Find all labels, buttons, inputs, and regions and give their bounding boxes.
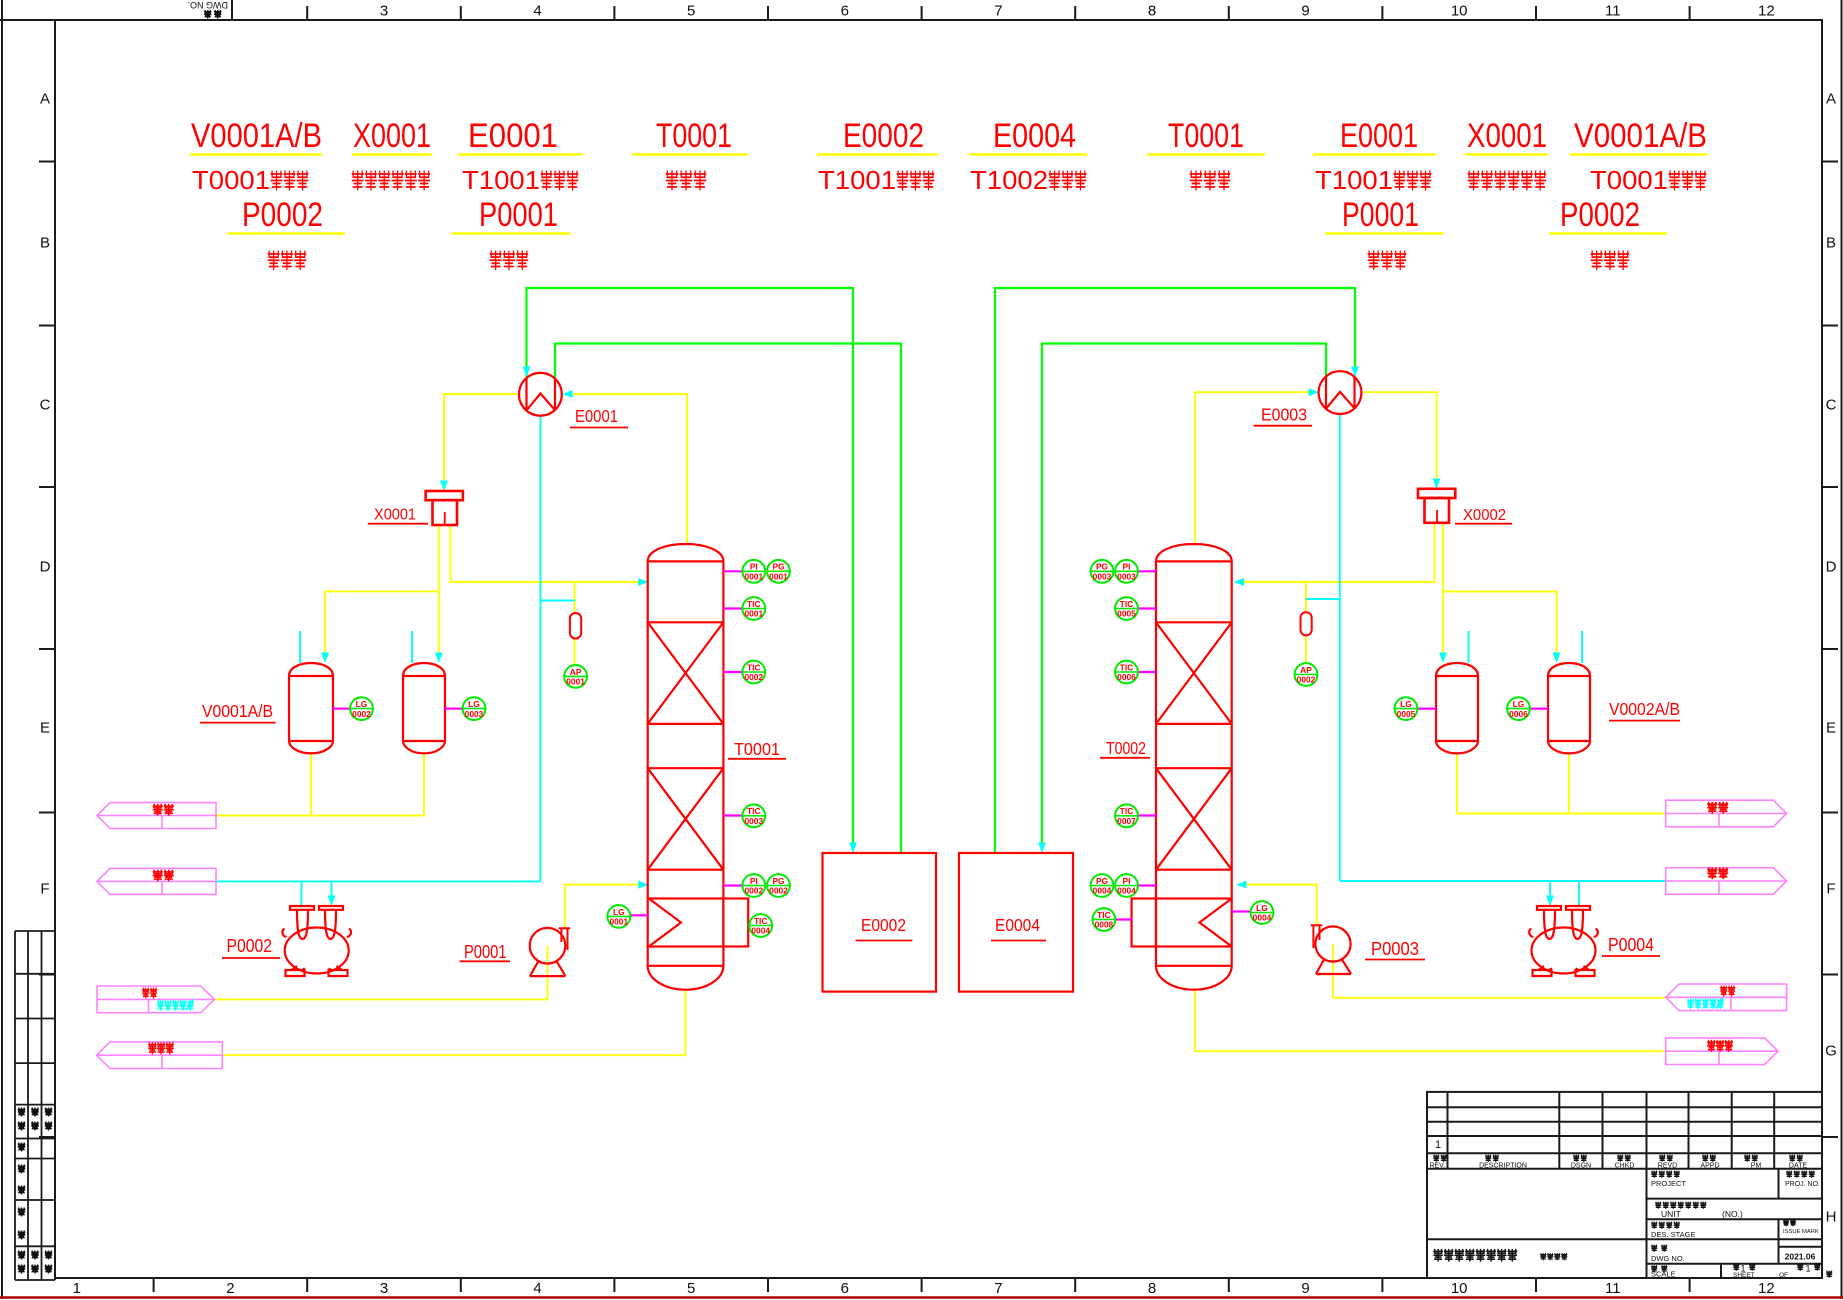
svg-text:TIC: TIC [747,806,761,816]
svg-text:9: 9 [1301,1280,1309,1297]
svg-text:C: C [1826,397,1837,414]
svg-text:7: 7 [994,3,1002,20]
svg-text:PROJECT: PROJECT [1651,1179,1686,1188]
product header from V0002A/B to flag [1457,754,1666,814]
instrument PI0001 [742,560,765,583]
cyan line E0001 bottom to vent header [216,416,540,882]
svg-text:T0001: T0001 [734,739,780,759]
vent drops into P0004 [1550,881,1579,906]
green line E0003 top-left to E0004 [1042,344,1326,850]
svg-text:LG: LG [356,699,368,709]
svg-text:TIC: TIC [747,599,761,609]
svg-text:8: 8 [1148,1280,1156,1297]
equipment index labels top [190,117,1707,269]
instrument LG0001 [607,905,630,928]
svg-text:PROJ. NO.: PROJ. NO. [1785,1181,1820,1188]
flag vent out right [1666,868,1787,895]
svg-text:T0001: T0001 [1168,117,1244,155]
instrument TIC0006 [1115,661,1138,684]
top-left fold mark vertical [231,0,233,20]
svg-text:0001: 0001 [769,572,788,582]
bottom ruler column numbers 1-12 [73,1280,1775,1297]
distillation column T0002 shell [1156,544,1232,990]
svg-text:10: 10 [1451,1280,1468,1297]
svg-text:OF: OF [1779,1272,1788,1279]
svg-text:0003: 0003 [1093,572,1112,582]
top-left upside-down DWG NO. fold label [188,0,229,10]
flag product out right [1666,800,1787,827]
svg-text:T1001: T1001 [818,165,896,195]
svg-text:E0001: E0001 [575,406,618,426]
svg-text:REV.: REV. [1429,1163,1445,1170]
right border row ticks [1822,161,1838,163]
svg-text:6: 6 [841,1280,849,1297]
svg-text:8: 8 [1148,3,1156,20]
svg-text:DES. STAGE: DES. STAGE [1651,1230,1695,1239]
svg-text:T0001: T0001 [192,165,270,195]
svg-text:0002: 0002 [352,709,371,719]
instrument AP0002 [1295,663,1318,686]
svg-text:ISSUE MARK: ISSUE MARK [1783,1229,1819,1235]
pipe drop to sample capsule AP0002 [1305,582,1307,663]
svg-text:0001: 0001 [744,609,763,619]
svg-text:TIC: TIC [747,662,761,672]
chiller box E0004 [959,853,1073,992]
svg-text:2021.06: 2021.06 [1785,1252,1816,1262]
sample capsule above AP0001 [570,613,581,639]
svg-text:TIC: TIC [1120,599,1134,609]
svg-text:0002: 0002 [1297,675,1316,685]
svg-text:0004: 0004 [751,926,770,936]
svg-text:DATE: DATE [1789,1163,1807,1170]
svg-text:12: 12 [1758,1280,1775,1297]
svg-text:0003: 0003 [744,816,763,826]
feed pump P0003 [1315,926,1350,961]
instrument PG0002 [767,874,790,897]
svg-text:LG: LG [468,699,480,709]
svg-text:0001: 0001 [744,572,763,582]
flag vent out left [97,868,216,894]
svg-text:E0001: E0001 [1340,117,1418,155]
instrument PG0003 [1091,560,1114,583]
svg-text:1: 1 [1805,1264,1810,1274]
svg-text:B: B [40,235,50,252]
svg-text:E0004: E0004 [993,117,1076,155]
svg-text:SHEET: SHEET [1733,1272,1755,1279]
vent drops into P0002 [302,881,332,906]
condenser E0001 [519,373,562,416]
svg-text:D: D [40,559,51,576]
cyan line E0003 bottom to vent header [1340,414,1666,881]
svg-text:F: F [40,881,49,898]
svg-text:0004: 0004 [1117,886,1136,896]
svg-text:T1001: T1001 [1315,165,1393,195]
T0002 reboiler chevron [1200,899,1232,947]
svg-text:P0001: P0001 [479,196,558,234]
product header from V0001A/B to flag [216,754,424,816]
svg-text:0001: 0001 [566,677,585,687]
svg-text:0003: 0003 [1117,572,1136,582]
instrument TIC0008 [1093,908,1116,931]
svg-text:LG: LG [613,907,625,917]
vacuum pump P0004 [1532,928,1596,974]
svg-text:UNIT: UNIT [1661,1209,1681,1219]
svg-text:0007: 0007 [1117,816,1136,826]
instrument LG0006 [1507,697,1530,720]
svg-text:P0002: P0002 [242,196,323,234]
svg-text:T0001: T0001 [656,117,732,155]
instrument PI0002 [742,874,765,897]
svg-text:P0002: P0002 [227,936,273,956]
svg-text:0006: 0006 [1509,709,1528,719]
svg-text:P0004: P0004 [1608,935,1654,955]
outer right border line [1841,0,1843,1299]
svg-text:TIC: TIC [1120,662,1134,672]
svg-text:DSGN: DSGN [1571,1163,1591,1170]
instrument PG0001 [767,560,790,583]
svg-text:X0001: X0001 [353,117,431,155]
green line E0002 to E0001 top-right [555,344,901,854]
svg-text:APPD: APPD [1700,1163,1719,1170]
svg-text:C: C [40,397,51,414]
svg-text:B: B [1826,235,1836,252]
svg-text:T1001: T1001 [462,165,540,195]
svg-text:1: 1 [1435,1139,1441,1151]
pipe branch to V0001A [325,591,439,659]
instrument LG0004 [1251,901,1274,924]
svg-text:E0003: E0003 [1261,405,1307,425]
product tank V0002B [1548,663,1590,753]
top ruler ticks [306,6,308,20]
svg-text:T0002: T0002 [1106,738,1146,758]
svg-text:0002: 0002 [744,672,763,682]
svg-text:PG: PG [772,562,784,572]
svg-text:1: 1 [73,1280,81,1297]
feed line from flag to P0001 [215,946,548,999]
svg-text:LG: LG [1400,699,1412,709]
pipe branch to V0002B [1443,592,1557,660]
svg-text:V0001A/B: V0001A/B [202,701,273,721]
T0002 packing X sections [1156,622,1232,724]
T0001 packing X sections [648,622,724,724]
equipment tag labels [200,405,1680,963]
svg-text:TIC: TIC [1120,806,1134,816]
bottom dark red paper edge line [0,1296,1843,1299]
product tank V0002A [1436,663,1478,753]
svg-text:T0001: T0001 [1590,165,1668,195]
svg-text:A: A [40,91,50,108]
pipe T0002 overhead to E0003 [1195,392,1316,544]
svg-text:P0002: P0002 [1560,196,1640,234]
svg-text:12: 12 [1758,3,1775,20]
svg-text:T1002: T1002 [970,165,1048,195]
instrument TIC0005 [1115,597,1138,620]
distillation column T0001 shell [648,544,724,990]
flag product out left [97,803,216,829]
instrument LG0002 [350,697,373,720]
svg-text:11: 11 [1605,3,1621,20]
svg-text:PI: PI [1123,562,1131,572]
top ruler column numbers 3-12 [380,3,1775,20]
svg-text:P0001: P0001 [1342,196,1419,234]
bottom ruler ticks [153,1278,155,1292]
P0003 discharge to T0002 feed [1240,885,1317,926]
svg-text:P0001: P0001 [464,942,507,962]
svg-text:PM: PM [1751,1163,1762,1170]
condenser E0003 [1319,371,1362,414]
flag bottoms out left [97,1042,223,1069]
svg-text:0006: 0006 [1117,672,1136,682]
pipe X0001 reflux to T0001 [450,525,645,582]
T0002 reboiler box [1132,899,1156,947]
svg-text:H: H [1826,1209,1837,1226]
vacuum pump P0002 [285,928,349,974]
svg-text:4: 4 [533,3,541,20]
svg-text:E0004: E0004 [995,915,1040,935]
svg-text:PG: PG [1096,876,1108,886]
svg-text:(NO.): (NO.) [1722,1209,1743,1219]
svg-text:0005: 0005 [1117,609,1136,619]
T0001 bottoms to flag [222,990,685,1055]
svg-text:4: 4 [533,1280,541,1297]
svg-text:PG: PG [1096,562,1108,572]
svg-text:0005: 0005 [1397,709,1416,719]
svg-text:PI: PI [750,562,758,572]
instrument TIC0001 [742,597,765,620]
svg-text:X0001: X0001 [1467,117,1547,155]
instrument PI0003 [1115,560,1138,583]
pipe X0002 outlet to V0002A [1442,523,1444,659]
feed pump P0001 [530,928,566,964]
vessel vent stubs V0002A/B [1469,631,1583,663]
svg-text:7: 7 [994,1280,1002,1297]
top edge extension to page corner [0,19,55,21]
left border row letters [40,91,51,898]
T0001 reboiler box [723,899,748,947]
pipe drop to sample capsule AP0001 [574,582,576,665]
svg-text:9: 9 [1301,3,1309,20]
svg-text:F: F [1826,881,1835,898]
svg-text:0001: 0001 [609,917,628,927]
svg-text:E: E [1826,720,1836,737]
svg-text:5: 5 [687,1280,695,1297]
svg-text:CHKD: CHKD [1615,1163,1635,1170]
green line E0001 top-left to E0002 [527,288,854,849]
pipe X0001 outlet to V0001B [438,525,440,659]
chiller box E0002 [823,853,937,992]
svg-text:DESCRIPTION: DESCRIPTION [1479,1163,1527,1170]
svg-text:REVD: REVD [1658,1163,1677,1170]
svg-text:E: E [40,720,50,737]
svg-text:X0001: X0001 [374,507,416,524]
instrument AP0001 [564,665,587,688]
cyan stub to capsule junction left [540,600,574,602]
right border row letters A-H [1825,91,1837,1226]
svg-text:V0001A/B: V0001A/B [191,117,322,155]
svg-text:TIC: TIC [754,916,768,926]
svg-text:3: 3 [380,1280,388,1297]
flag bottoms out right [1666,1038,1778,1065]
svg-text:TIC: TIC [1097,910,1111,920]
left binding strip table [15,931,55,1280]
svg-text:3: 3 [380,3,388,20]
left border row ticks [39,161,55,163]
instrument TIC0007 [1115,804,1138,827]
instrument PG0004 [1091,874,1114,897]
svg-text:P0003: P0003 [1371,939,1419,959]
svg-text:PI: PI [750,876,758,886]
svg-text:DWG NO.: DWG NO. [188,0,229,10]
pipe X0002 reflux to T0002 [1237,523,1435,582]
svg-text:DWG NO.: DWG NO. [1651,1254,1685,1263]
pipe E0001 to X0001 [444,394,520,487]
svg-text:0002: 0002 [744,886,763,896]
green line E0004 to E0003 top-right [995,288,1355,853]
pipe E0003 to X0002 [1362,392,1437,485]
product tank V0001A [289,663,333,753]
title block [1427,1092,1822,1278]
svg-text:11: 11 [1605,1280,1621,1297]
svg-text:LG: LG [1256,903,1268,913]
T0002 bottoms to flag [1195,990,1666,1051]
svg-text:AP: AP [1300,665,1312,675]
reflux controller X0002 [1418,489,1455,498]
instrument LG0003 [463,697,486,720]
svg-text:0008: 0008 [1095,920,1114,930]
svg-text:PG: PG [772,876,784,886]
svg-text:E0001: E0001 [468,117,558,155]
svg-text:V0001A/B: V0001A/B [1574,117,1707,155]
product tank V0001B [403,663,445,753]
pipe T0001 overhead to E0001 [566,394,687,544]
T0001 reboiler chevron [649,899,681,947]
P0001 discharge to T0001 feed [565,885,645,929]
svg-text:10: 10 [1451,3,1468,20]
svg-text:6: 6 [841,3,849,20]
svg-text:A: A [1826,91,1836,108]
flag feed in right [1666,984,1787,1011]
flag feed in left [97,986,215,1013]
instrument TIC0004 [749,914,772,937]
svg-text:SCALE: SCALE [1651,1270,1676,1279]
magenta instrument connection stubs [333,571,1548,925]
svg-text:0004: 0004 [1093,886,1112,896]
svg-text:V0002A/B: V0002A/B [1609,699,1680,719]
svg-text:2: 2 [226,1280,234,1297]
instrument PI0004 [1115,874,1138,897]
svg-text:E0002: E0002 [843,117,924,155]
svg-text:PI: PI [1123,876,1131,886]
svg-text:G: G [1825,1043,1837,1060]
flow arrowheads [523,367,531,378]
cyan stub to capsule junction right [1306,598,1340,600]
svg-text:AP: AP [570,667,582,677]
feed line from flag to P0003 [1333,944,1666,998]
outer left border line [1,0,3,1299]
instrument TIC0002 [742,661,765,684]
svg-text:0004: 0004 [1253,913,1272,923]
svg-text:5: 5 [687,3,695,20]
svg-text:X0002: X0002 [1463,507,1506,524]
svg-text:E0002: E0002 [861,915,906,935]
svg-text:0003: 0003 [465,709,484,719]
reflux controller X0001 [426,491,463,500]
sample capsule above AP0002 [1301,612,1312,635]
vessel vent stubs V0001A/B [300,631,412,663]
svg-text:LG: LG [1513,699,1525,709]
svg-text:D: D [1826,559,1837,576]
instrument TIC0003 [742,804,765,827]
instrument LG0005 [1395,697,1418,720]
svg-text:0002: 0002 [769,886,788,896]
